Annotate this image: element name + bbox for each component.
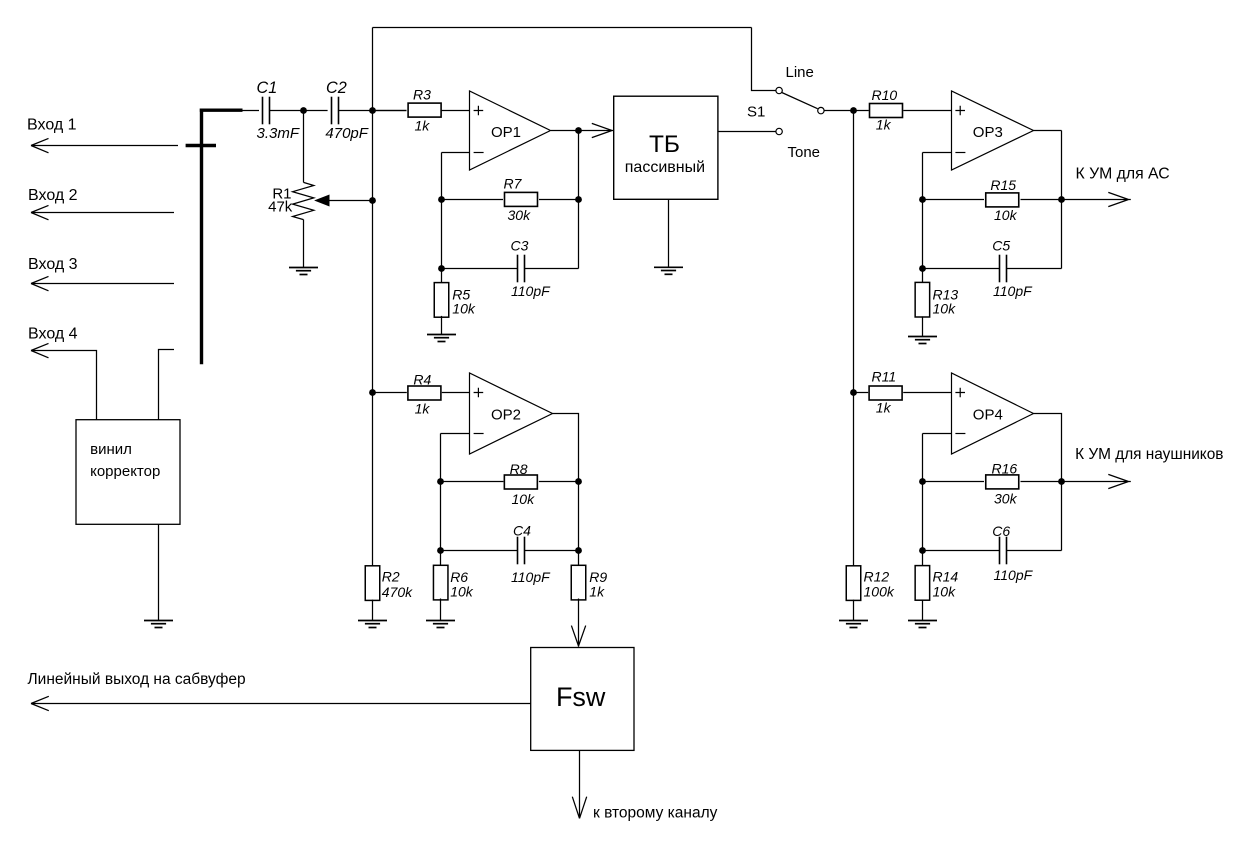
wire R6 to ground [440, 599, 442, 621]
capacitor C4 110pF [441, 550, 518, 552]
capacitor C1 [263, 97, 270, 125]
svg-text:OP2: OP2 [491, 407, 521, 424]
wire OP4 inverting vertical chain [922, 434, 924, 566]
junction R11 input [850, 389, 857, 396]
svg-text:R9: R9 [589, 569, 607, 585]
svg-text:OP1: OP1 [491, 124, 521, 141]
svg-text:Tone: Tone [788, 144, 821, 161]
junction C3 left [438, 265, 445, 272]
wire C2 to R3 [338, 110, 406, 112]
svg-text:R10: R10 [872, 87, 898, 103]
svg-text:R3: R3 [413, 87, 431, 103]
svg-text:10k: 10k [994, 207, 1018, 223]
svg-text:К УМ для наушников: К УМ для наушников [1075, 446, 1223, 463]
wire OP4 output [1034, 414, 1062, 551]
svg-text:470k: 470k [382, 584, 413, 600]
resistor R7 30k [442, 199, 504, 201]
capacitor C3 110pF [442, 268, 518, 270]
svg-text:110pF: 110pF [994, 567, 1034, 583]
wire R16 right [1021, 481, 1062, 483]
ground under vinyl corrector [144, 621, 173, 628]
svg-text:110pF: 110pF [993, 283, 1033, 299]
wire OP2 inverting vertical chain [440, 434, 442, 566]
switch S1 pole contact [818, 107, 824, 113]
capacitor C5 110pF [923, 268, 1000, 270]
wire OP1 minus input [442, 152, 471, 154]
resistor R10 1k [870, 104, 903, 118]
svg-text:C1: C1 [257, 79, 278, 97]
svg-text:C2: C2 [326, 79, 347, 97]
wire vinyl corrector bottom to ground [158, 524, 160, 620]
block vinyl corrector [76, 420, 180, 525]
ground under R12 [839, 621, 868, 628]
resistor R13 10k [915, 282, 930, 317]
svg-text:Линейный выход на сабвуфер: Линейный выход на сабвуфер [28, 671, 246, 688]
svg-text:R6: R6 [450, 569, 468, 585]
svg-text:OP3: OP3 [973, 124, 1003, 141]
resistor R4 1k [373, 392, 407, 394]
wire OP2 minus input [441, 433, 471, 435]
wire OP3 output vertical feedback [1061, 131, 1063, 269]
resistor R3 1k [373, 110, 407, 112]
capacitor C2 [332, 97, 339, 125]
junction C4 left [437, 547, 444, 554]
wire output arrow K UM dlya naushnikov [1062, 474, 1131, 488]
svg-text:Line: Line [786, 64, 814, 81]
wire R1 wiper to bus [329, 200, 373, 202]
svg-text:100k: 100k [864, 584, 895, 600]
junction R16 right / output [1058, 478, 1065, 485]
svg-text:C5: C5 [992, 237, 1010, 253]
wire OP1 output to TB with arrow [579, 123, 614, 137]
wire input 4 arrow to vinyl corrector [31, 343, 97, 419]
svg-text:110pF: 110pF [511, 283, 551, 299]
wire input 2 arrow [31, 205, 174, 219]
junction pole node [850, 107, 857, 114]
svg-text:1k: 1k [876, 400, 892, 416]
wire main left vertical bus x=372.5 [372, 28, 374, 566]
svg-text:к второму каналу: к второму каналу [593, 805, 718, 822]
resistor R8 10k [441, 481, 504, 483]
wire top feedback horizontal [373, 27, 752, 29]
junction wiper on bus [369, 197, 376, 204]
wire R10 to OP3 [903, 110, 951, 112]
wire thick input bus top horizontal [200, 108, 243, 111]
wire R8 right [539, 481, 579, 483]
svg-text:OP4: OP4 [973, 407, 1003, 424]
switch S1 blade [782, 93, 818, 109]
svg-text:R4: R4 [413, 371, 431, 387]
junction R8 right [575, 478, 582, 485]
svg-text:Вход 1: Вход 1 [27, 117, 77, 134]
svg-text:10k: 10k [452, 301, 476, 317]
ground under R5 [427, 335, 456, 342]
junction R7 left [438, 196, 445, 203]
op-amp OP4 [952, 373, 1034, 454]
wire R4 to OP2 [442, 392, 470, 394]
resistor R15 10k [923, 199, 985, 201]
wire OP1 output [551, 130, 579, 132]
junction R16 left [919, 478, 926, 485]
junction R15 right / output [1058, 196, 1065, 203]
svg-text:R14: R14 [933, 569, 959, 585]
op-amp OP2 [470, 373, 553, 454]
wire OP2 output [553, 414, 579, 566]
svg-text:1k: 1k [876, 116, 892, 132]
svg-text:10k: 10k [933, 301, 957, 317]
junction OP1 output [575, 127, 582, 134]
ground under R2 [358, 621, 387, 628]
svg-text:47k: 47k [268, 199, 293, 216]
svg-text:1k: 1k [589, 584, 605, 600]
svg-text:1k: 1k [415, 400, 431, 416]
wire R13 to ground [922, 316, 924, 336]
capacitor C6 110pF [923, 550, 1000, 552]
wire OP3 minus input [923, 152, 952, 154]
wire pole bus to R11 [854, 392, 869, 394]
svg-text:C3: C3 [511, 237, 529, 253]
svg-text:R8: R8 [510, 461, 528, 477]
svg-text:К УМ для АС: К УМ для АС [1076, 166, 1170, 183]
svg-text:R11: R11 [872, 369, 897, 385]
switch S1 Line contact [776, 87, 782, 93]
resistor R6 10k [433, 565, 448, 600]
wire OP4 minus input [923, 433, 952, 435]
svg-text:Вход 3: Вход 3 [28, 256, 78, 273]
node A junction C1/C2/R1 [300, 107, 307, 114]
junction C2 output on vertical bus [369, 107, 376, 114]
wire R1 bottom to ground [303, 220, 305, 268]
svg-text:винил: винил [90, 441, 132, 458]
junction C4 right [575, 547, 582, 554]
svg-text:ТБ: ТБ [649, 131, 680, 158]
wire OP1 inverting vertical chain [441, 153, 443, 283]
svg-text:C4: C4 [513, 523, 531, 539]
wire R11 to OP4 [903, 392, 952, 394]
junction R4 input [369, 389, 376, 396]
svg-text:Вход 2: Вход 2 [28, 187, 78, 204]
wire vinyl corrector right stub [159, 350, 175, 420]
wire input 1 arrow [31, 138, 178, 152]
svg-text:пассивный: пассивный [625, 159, 705, 176]
svg-text:10k: 10k [450, 584, 474, 600]
resistor R14 10k [915, 566, 930, 601]
svg-text:470pF: 470pF [325, 125, 368, 142]
ground under R14 [908, 621, 937, 628]
wire R7 right to output vertical [539, 199, 579, 201]
wiper arrow of R1 [316, 195, 330, 206]
wire input 3 arrow [31, 276, 174, 290]
svg-text:30k: 30k [994, 491, 1018, 507]
svg-text:Вход 4: Вход 4 [28, 326, 78, 343]
svg-text:корректор: корректор [90, 463, 160, 480]
svg-text:R12: R12 [864, 569, 890, 585]
resistor R11 1k [869, 386, 902, 400]
svg-text:30k: 30k [508, 207, 532, 223]
svg-text:1k: 1k [415, 118, 431, 134]
wire OP1 output vertical feedback [578, 131, 580, 269]
ground under R1 [289, 268, 318, 275]
junction R15 left [919, 196, 926, 203]
op-amp OP1 [470, 91, 551, 170]
wire bus to C1 [243, 110, 260, 112]
svg-text:R2: R2 [382, 568, 400, 584]
junction C5 left [919, 265, 926, 272]
wire R5 to ground [441, 316, 443, 335]
wire R3 to OP1 plus input [442, 110, 471, 112]
wire C1 to node A [270, 110, 304, 112]
wire node A to C2 [304, 110, 328, 112]
wire TB output to Tone contact [718, 131, 776, 133]
wire output arrow K UM dlya AS [1062, 192, 1131, 206]
resistor R2 470k [365, 566, 380, 601]
svg-text:10k: 10k [933, 584, 957, 600]
svg-text:S1: S1 [747, 103, 765, 120]
wire pole to R10 [824, 110, 869, 112]
wire TB bottom to ground [668, 200, 670, 268]
svg-text:3.3mF: 3.3mF [257, 125, 300, 142]
wire R15 right [1021, 199, 1062, 201]
op-amp OP3 [952, 91, 1034, 170]
wire OP3 output [1034, 130, 1062, 132]
resistor R1 potentiometer zigzag 47k [293, 182, 314, 219]
wire thick input bus vertical [200, 109, 203, 365]
resistor R5 10k [434, 283, 449, 318]
block TB passive tone control [614, 96, 718, 199]
wire R2 to ground [372, 600, 374, 621]
junction C6 left [919, 547, 926, 554]
junction thick tick input1 to bus [186, 144, 216, 147]
wire Fsw bottom with arrow [572, 750, 586, 818]
ground under TB [654, 267, 683, 274]
junction R8 left [437, 478, 444, 485]
resistor R16 30k [923, 481, 985, 483]
wire R14 to ground [922, 600, 924, 621]
ground under R13 [908, 337, 937, 344]
wire R9 to Fsw with arrow [571, 599, 585, 647]
wire OP3 inverting vertical chain [922, 153, 924, 283]
junction R7 right [575, 196, 582, 203]
svg-text:Fsw: Fsw [556, 682, 606, 712]
svg-text:R7: R7 [504, 175, 523, 191]
wire top feedback right vertical to Line contact [752, 28, 776, 91]
svg-text:R15: R15 [990, 177, 1016, 193]
block Fsw subsonic filter [531, 648, 634, 751]
wire R12 to ground [853, 600, 855, 621]
resistor R9 1k [571, 565, 586, 600]
svg-text:10k: 10k [512, 491, 536, 507]
svg-text:C6: C6 [992, 523, 1010, 539]
wire node A down to R1 [303, 111, 305, 183]
wire right vertical bus x=853.5 [853, 111, 855, 566]
resistor R12 100k [846, 566, 861, 601]
svg-text:110pF: 110pF [511, 569, 551, 585]
switch S1 Tone contact [776, 128, 782, 134]
svg-text:R16: R16 [992, 460, 1018, 476]
ground under R6 [426, 621, 455, 628]
wire Fsw left output with arrow [31, 696, 531, 710]
